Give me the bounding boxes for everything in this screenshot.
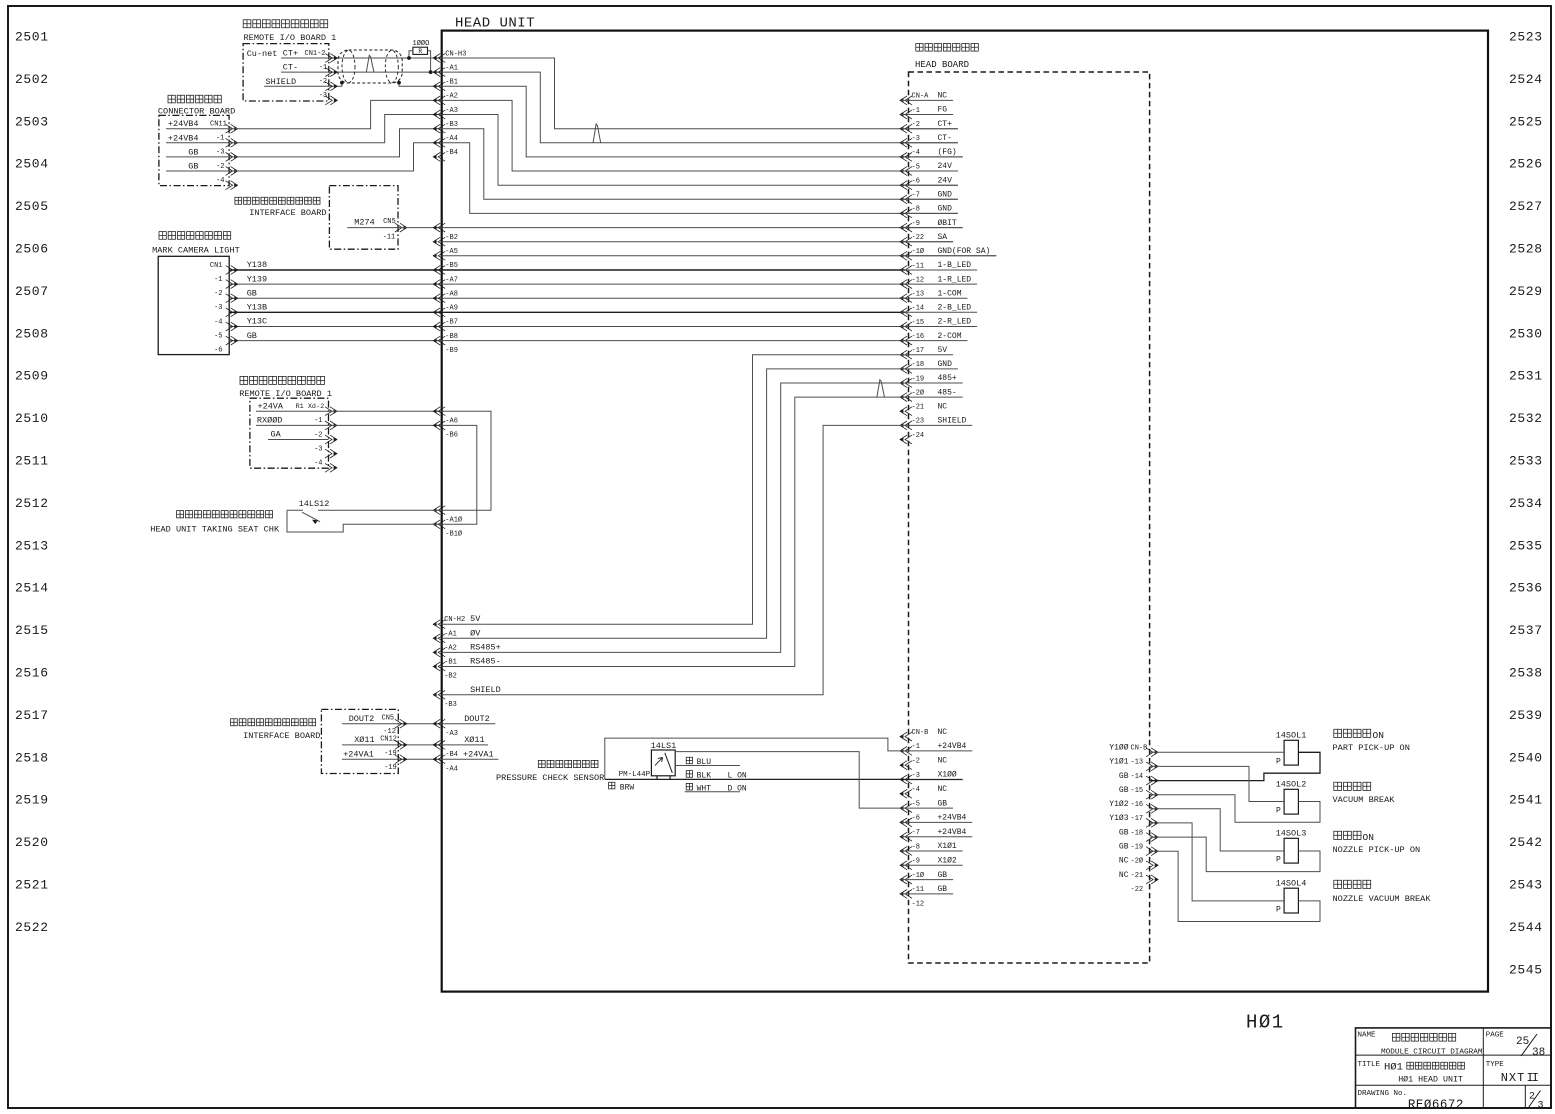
stub wire 2-COM xyxy=(901,340,968,342)
solenoid 14SOL4 box xyxy=(1284,888,1298,913)
svg-text:-B1: -B1 xyxy=(444,659,457,667)
connector pin CN11 CN11 xyxy=(226,124,238,133)
svg-text:M274: M274 xyxy=(354,218,374,228)
connector pin CN-H3 -B9 xyxy=(433,336,445,345)
svg-text:1-R_LED: 1-R_LED xyxy=(938,275,972,284)
solenoid 14SOL2 box xyxy=(1284,789,1298,814)
label part pick-up on (japanese) xyxy=(1334,729,1371,737)
connector pin +24VA1 head unit side xyxy=(433,755,445,764)
connector pin CN-A -19 xyxy=(900,379,912,388)
connector pin camera CN1 -2 xyxy=(226,294,238,303)
connector pin CN1 row 0 xyxy=(325,54,337,63)
wire A4 to GND (CN-H3 to CN-A) xyxy=(442,143,958,214)
connector pin CN-H3 CN-H3 xyxy=(433,54,445,63)
svg-text:2535: 2535 xyxy=(1509,538,1543,553)
connector pin CN-B CN-B xyxy=(900,732,912,741)
svg-text:2510: 2510 xyxy=(15,411,49,426)
svg-text:RS485-: RS485- xyxy=(470,657,501,667)
svg-text:-5: -5 xyxy=(912,800,920,808)
svg-text:CN11: CN11 xyxy=(210,121,227,129)
wire +24VA1 interface board to head unit xyxy=(342,758,498,760)
connector pin CN1 row 1 xyxy=(325,68,337,77)
svg-text:2541: 2541 xyxy=(1509,793,1543,808)
svg-text:2538: 2538 xyxy=(1509,666,1543,681)
svg-text:CT-: CT- xyxy=(938,134,952,143)
svg-text:WHT: WHT xyxy=(697,784,712,793)
wire +24VA to CN-H3 -A6 xyxy=(256,410,442,412)
connector pin CN-H2 0V xyxy=(433,634,445,643)
svg-text:-A4: -A4 xyxy=(445,135,458,143)
svg-text:DOUT2: DOUT2 xyxy=(349,714,375,724)
wire GB CN11-2 to CN-H3 -A4 xyxy=(166,143,442,171)
svg-text:P: P xyxy=(1276,905,1281,914)
connector pin CN-B -18 (right) xyxy=(1146,833,1158,842)
svg-text:-4: -4 xyxy=(912,786,920,794)
wire GA stub xyxy=(268,439,329,441)
connector pin CN-B -2 xyxy=(900,761,912,770)
svg-text:-7: -7 xyxy=(912,829,920,837)
svg-text:14SOL4: 14SOL4 xyxy=(1276,878,1307,888)
svg-text:2512: 2512 xyxy=(15,496,49,511)
svg-text:2519: 2519 xyxy=(15,793,49,808)
svg-text:-1: -1 xyxy=(912,107,920,115)
connector pin camera CN1 -1 xyxy=(226,280,238,289)
connector pin CN-H2 RS485- xyxy=(433,662,445,671)
stub wire GB xyxy=(901,879,953,881)
svg-text:2540: 2540 xyxy=(1509,750,1543,765)
svg-text:Y1ØØ: Y1ØØ xyxy=(1109,744,1128,753)
connector pin Xd row 1 xyxy=(325,421,337,430)
svg-text:SHIELD: SHIELD xyxy=(266,77,297,87)
svg-text:1-B_LED: 1-B_LED xyxy=(938,261,972,270)
stub wire NC xyxy=(901,99,953,101)
connector pin CN-A -18 xyxy=(900,365,912,374)
twisted pair symbol on 485- xyxy=(877,380,885,397)
connector pin CN-B -9 xyxy=(900,861,912,870)
connector pin CN11 -4 xyxy=(226,181,238,190)
connector pin X011 board side xyxy=(395,741,407,750)
wire loop A6 to A10 (inside head unit) xyxy=(442,411,491,510)
svg-text:+24VA1: +24VA1 xyxy=(343,749,374,759)
svg-text:TYPE: TYPE xyxy=(1486,1061,1505,1069)
svg-text:BLU: BLU xyxy=(697,758,712,767)
svg-text:XØ11: XØ11 xyxy=(464,735,484,745)
wire Y101 to 14SOL2 xyxy=(1150,766,1285,801)
connector pin CN-B -5 xyxy=(900,804,912,813)
title block xyxy=(1356,1028,1552,1109)
svg-text:INTERFACE BOARD: INTERFACE BOARD xyxy=(243,731,320,741)
wire Y103 to 14SOL4 xyxy=(1150,823,1285,901)
wire Y13C camera to CN-A xyxy=(229,326,905,328)
wire X011 interface board to head unit xyxy=(342,744,488,746)
svg-text:MARK CAMERA LIGHT: MARK CAMERA LIGHT xyxy=(152,246,240,256)
sensor 14LS1 box xyxy=(651,750,675,776)
svg-text:-A8: -A8 xyxy=(445,290,458,298)
svg-text:RS485+: RS485+ xyxy=(470,642,501,652)
svg-text:2516: 2516 xyxy=(15,666,49,681)
svg-text:ØV: ØV xyxy=(470,628,481,638)
svg-text:-2: -2 xyxy=(912,121,920,129)
svg-text:-3: -3 xyxy=(216,149,224,157)
connector pin CN-B -21 (right) xyxy=(1146,875,1158,884)
connector pin CN-A CN-A xyxy=(900,96,912,105)
wire SHIELD CN-H2 to CN-A xyxy=(442,425,901,694)
stub wire FG xyxy=(901,114,953,116)
svg-text:-A9: -A9 xyxy=(445,305,458,313)
svg-text:2503: 2503 xyxy=(15,114,49,129)
svg-text:GB: GB xyxy=(938,885,948,894)
solenoid 14SOL1 box xyxy=(1284,740,1298,765)
wire A3 to 24V (CN-H3 to CN-A) xyxy=(442,115,958,186)
connector pin DOUT2 head unit side xyxy=(433,719,445,728)
svg-text:-11: -11 xyxy=(383,234,396,242)
svg-text:Y1Ø3: Y1Ø3 xyxy=(1109,814,1128,823)
connector pin Xd row 4 xyxy=(325,463,337,472)
label connector board (japanese) xyxy=(168,95,221,103)
svg-text:PAGE: PAGE xyxy=(1486,1032,1505,1040)
connector pin CN-A -16 xyxy=(900,336,912,345)
svg-text:-16: -16 xyxy=(912,333,925,341)
wire GB camera to CN-A xyxy=(229,297,905,299)
wire RX00D to CN-H3 -B6 xyxy=(256,424,442,426)
svg-text:-1: -1 xyxy=(214,276,222,284)
resistor R 100ohm terminator xyxy=(413,47,428,54)
svg-text:-A4: -A4 xyxy=(445,766,458,774)
left margin row numbers 2501-2522 xyxy=(15,30,49,935)
connector pin CN-H2 RS485+ xyxy=(433,648,445,657)
svg-text:+24VA: +24VA xyxy=(258,401,284,411)
label head unit taking seat chk (japanese) xyxy=(177,511,273,518)
head board (dashed outline) xyxy=(909,72,1150,963)
svg-text:-6: -6 xyxy=(214,347,222,355)
svg-text:2-B_LED: 2-B_LED xyxy=(938,304,972,313)
svg-text:-B9: -B9 xyxy=(445,347,458,355)
connector pin CN-B CN-B (right) xyxy=(1146,748,1158,757)
svg-text:2-R_LED: 2-R_LED xyxy=(938,318,972,327)
svg-text:-16: -16 xyxy=(1131,801,1144,809)
label nozzle pick-up on (japanese) xyxy=(1334,831,1361,839)
svg-text:Y1Ø2: Y1Ø2 xyxy=(1109,800,1128,809)
stub wire GND xyxy=(901,368,958,370)
wire SHIELD from remote I/O board to cable screen xyxy=(264,83,342,87)
connector pin CN-A -21 xyxy=(900,407,912,416)
svg-text:+24VA1: +24VA1 xyxy=(463,749,494,759)
connector pin CN-H3 -B8 xyxy=(433,322,445,331)
svg-text:2518: 2518 xyxy=(15,750,49,765)
svg-text:25: 25 xyxy=(1516,1036,1529,1048)
svg-text:GB: GB xyxy=(188,162,198,172)
wire Y102 to 14SOL3 xyxy=(1150,809,1285,851)
svg-text:2523: 2523 xyxy=(1509,30,1543,45)
connector pin CN-B -1 xyxy=(900,747,912,756)
label H01 head unit (japanese) xyxy=(1407,1062,1465,1069)
label blue (japanese) xyxy=(686,757,692,764)
svg-text:2543: 2543 xyxy=(1509,878,1543,893)
svg-text:2505: 2505 xyxy=(15,199,49,214)
stub wire GB xyxy=(901,807,953,809)
connector pin DOUT2 board side xyxy=(395,719,407,728)
wire WHT stub (n.c.) xyxy=(685,791,740,793)
wire 14SOL3 return to GB -18 xyxy=(1150,837,1320,872)
svg-text:CN-H3: CN-H3 xyxy=(445,50,466,58)
connector pin CN-A -14 xyxy=(900,308,912,317)
svg-text:-4: -4 xyxy=(314,460,322,468)
connector pin CN5-11 xyxy=(395,223,407,232)
connector pin CN11 -2 xyxy=(226,167,238,176)
stub wire GB xyxy=(901,893,953,895)
svg-text:-8: -8 xyxy=(912,843,920,851)
connector pin CN-H3 -A6 xyxy=(433,407,445,416)
connector pin CN-A -23 xyxy=(900,421,912,430)
connector pin CN-H3 -A8 xyxy=(433,280,445,289)
svg-text:-19: -19 xyxy=(384,764,397,772)
connector pin CN-A -22 xyxy=(900,237,912,246)
svg-text:1ØØΩ: 1ØØΩ xyxy=(413,39,430,48)
connector pin CN-H3 -B3 xyxy=(433,124,445,133)
stub wire 485+ xyxy=(901,382,963,384)
svg-text:HØ1 HEAD UNIT: HØ1 HEAD UNIT xyxy=(1398,1075,1463,1085)
svg-text:-12: -12 xyxy=(912,276,925,284)
stub wire CT- xyxy=(901,142,958,144)
svg-text:-19: -19 xyxy=(912,375,925,383)
svg-text:NAME: NAME xyxy=(1358,1032,1377,1040)
svg-text:Y13B: Y13B xyxy=(247,303,267,313)
svg-text:-19: -19 xyxy=(1131,844,1144,852)
svg-text:-3: -3 xyxy=(314,445,322,453)
connector pin Xd row 3 xyxy=(325,449,337,458)
label mark camera light (japanese) xyxy=(159,232,231,240)
label black (japanese) xyxy=(686,771,692,778)
wire GB camera to CN-A xyxy=(229,340,905,342)
svg-text:-24: -24 xyxy=(912,432,925,440)
svg-text:CN-B: CN-B xyxy=(912,729,929,737)
stub wire 2-B_LED xyxy=(901,311,977,313)
svg-text:-4: -4 xyxy=(214,318,222,326)
svg-text:TITLE: TITLE xyxy=(1358,1061,1381,1069)
svg-text:14SOL1: 14SOL1 xyxy=(1276,731,1307,741)
wire BLU stub (n.c.) xyxy=(675,765,740,767)
svg-text:2531: 2531 xyxy=(1509,369,1543,384)
connector pin CN-H3 -B10 xyxy=(433,520,445,529)
svg-text:GB: GB xyxy=(1119,843,1129,852)
svg-text:NC: NC xyxy=(938,728,948,737)
wire GB CN11-3 to CN-H3 -B3 xyxy=(166,129,442,157)
svg-text:5V: 5V xyxy=(938,346,948,355)
connector pin CN-A -8 xyxy=(900,209,912,218)
connector pin CN1 row 3 xyxy=(325,96,337,105)
svg-text:2530: 2530 xyxy=(1509,326,1543,341)
svg-text:-15: -15 xyxy=(1131,787,1144,795)
svg-text:NC: NC xyxy=(938,92,948,101)
connector pin camera CN1 -3 xyxy=(226,308,238,317)
svg-text:RXØØD: RXØØD xyxy=(257,416,283,426)
svg-text:P: P xyxy=(1276,856,1281,865)
svg-text:-B1Ø: -B1Ø xyxy=(445,530,462,539)
stub wire (FG) xyxy=(901,156,963,158)
stub wire GND xyxy=(901,212,958,214)
svg-text:-B5: -B5 xyxy=(445,262,458,270)
svg-text:2527: 2527 xyxy=(1509,199,1543,214)
connector pin CN-H3 -A3 xyxy=(433,110,445,119)
svg-text:L ON: L ON xyxy=(728,772,747,781)
svg-text:-13: -13 xyxy=(912,291,925,299)
connector pin CN11 -3 xyxy=(226,153,238,162)
svg-text:-1: -1 xyxy=(912,743,920,751)
label interface board (japanese) xyxy=(235,197,320,204)
svg-text:-14: -14 xyxy=(1131,773,1144,781)
label vacuum break (japanese) xyxy=(1334,782,1371,790)
stub wire GND(FOR SA) xyxy=(901,255,996,257)
svg-text:-9: -9 xyxy=(912,858,920,866)
connector pin Xd row 0 xyxy=(325,407,337,416)
svg-text:-23: -23 xyxy=(912,418,925,426)
svg-text:ØBIT: ØBIT xyxy=(938,219,957,228)
svg-text:X1Ø2: X1Ø2 xyxy=(938,857,957,866)
connector pin CN-B -10 xyxy=(900,875,912,884)
shielded-pair cable symbol xyxy=(338,50,402,83)
connector pin CN-H3 -B7 xyxy=(433,308,445,317)
svg-text:+24VB4: +24VB4 xyxy=(938,814,967,823)
svg-text:CN-H2: CN-H2 xyxy=(444,616,465,624)
connector pin CN-B -3 xyxy=(900,775,912,784)
connector pin CN-A -12 xyxy=(900,280,912,289)
connector pin CN-A -1 xyxy=(900,110,912,119)
connector pin CN-A -2 xyxy=(900,124,912,133)
wire Y138 camera to CN-A xyxy=(229,269,905,271)
svg-text:2528: 2528 xyxy=(1509,242,1543,257)
svg-text:-2: -2 xyxy=(214,290,222,298)
wire CT- (CN-H3 to CN-A) xyxy=(442,72,958,143)
wire BLU to GB (CN-B -5) xyxy=(675,752,901,809)
svg-text:-1: -1 xyxy=(216,135,224,143)
svg-text:NC: NC xyxy=(938,402,948,411)
svg-text:-21: -21 xyxy=(1131,872,1144,880)
svg-text:-8: -8 xyxy=(912,206,920,214)
label module circuit diagram (japanese) xyxy=(1393,1033,1456,1041)
svg-text:485+: 485+ xyxy=(938,374,957,383)
svg-text:D ON: D ON xyxy=(728,784,747,793)
svg-text:-A1Ø: -A1Ø xyxy=(445,516,462,525)
wire 14SOL4 return to GB -19 xyxy=(1150,851,1320,921)
svg-text:14LS1: 14LS1 xyxy=(651,741,677,751)
label brown (japanese) xyxy=(609,782,615,789)
junction resistor/CT- xyxy=(429,70,433,74)
stub wire +24VB4 xyxy=(901,750,972,752)
sensor switch blade xyxy=(665,753,673,773)
connector pin camera CN1 -5 xyxy=(226,336,238,345)
svg-text:-1Ø: -1Ø xyxy=(912,247,925,256)
wire BRW +24V loop: sensor to CN-B -1 xyxy=(605,738,901,779)
HEAD UNIT enclosure box xyxy=(442,31,1488,992)
wire 0V CN-H2 to CN-A xyxy=(442,369,901,638)
svg-text:-21: -21 xyxy=(912,404,925,412)
svg-text:2520: 2520 xyxy=(15,835,49,850)
svg-text:2532: 2532 xyxy=(1509,411,1543,426)
svg-text:-18: -18 xyxy=(912,361,925,369)
connector pin CN-H3 -B6 xyxy=(433,421,445,430)
right margin row numbers 2523-2545 xyxy=(1509,30,1543,978)
stub wire 1-COM xyxy=(901,297,968,299)
svg-text:-B2: -B2 xyxy=(445,234,458,242)
svg-text:Y138: Y138 xyxy=(247,260,267,270)
connector pin CN-A -5 xyxy=(900,167,912,176)
svg-text:2501: 2501 xyxy=(15,30,49,45)
svg-text:HØ1: HØ1 xyxy=(1246,1012,1285,1034)
svg-text:2544: 2544 xyxy=(1509,920,1543,935)
svg-text:PART PICK-UP ON: PART PICK-UP ON xyxy=(1333,743,1410,753)
svg-text:2513: 2513 xyxy=(15,538,49,553)
label remote I/O board 1 (japanese) xyxy=(243,20,328,28)
svg-text:CN-B: CN-B xyxy=(1131,745,1148,753)
svg-text:2521: 2521 xyxy=(15,878,49,893)
wire 14SOL2 return to GB -15 xyxy=(1150,795,1320,823)
wire Y13B camera to CN-A xyxy=(229,311,905,313)
svg-text:GB: GB xyxy=(188,147,198,157)
wire +24VB4 CN11 to CN-H3 -A2 xyxy=(166,100,442,128)
wire resistor right lead to CT- xyxy=(428,51,431,72)
wire 14SOL1 return to GB -14 xyxy=(1150,752,1320,780)
stub wire X101 xyxy=(901,850,963,852)
svg-text:NC: NC xyxy=(938,785,948,794)
stub sensor black lead xyxy=(669,776,671,780)
connector pin CN-H3 -A9 xyxy=(433,294,445,303)
svg-text:BLK: BLK xyxy=(697,772,712,781)
svg-text:2537: 2537 xyxy=(1509,623,1543,638)
svg-text:2502: 2502 xyxy=(15,72,49,87)
svg-text:Y13C: Y13C xyxy=(247,317,267,327)
svg-text:2536: 2536 xyxy=(1509,581,1543,596)
svg-text:-11: -11 xyxy=(912,886,925,894)
svg-text:-3: -3 xyxy=(912,772,920,780)
svg-text:2509: 2509 xyxy=(15,369,49,384)
svg-text:-3: -3 xyxy=(214,304,222,312)
wire Y139 camera to CN-A xyxy=(229,283,905,285)
connector pin CN-H3 -A4 xyxy=(433,138,445,147)
wire +24VB4 CN11-1 to CN-H3 -A3 xyxy=(166,115,442,143)
connector pin CN-A -9 xyxy=(900,223,912,232)
twisted pair symbol on CT-/CT+ xyxy=(366,55,374,72)
junction cable screen right xyxy=(397,81,401,85)
connector pin CN-H2 SHIELD xyxy=(433,690,445,699)
connector pin CN-H3 -A5 xyxy=(433,237,445,246)
svg-text:-A2: -A2 xyxy=(445,93,458,101)
svg-text:-13: -13 xyxy=(1131,759,1144,767)
connector pin CN-B -15 (right) xyxy=(1146,790,1158,799)
svg-text:38: 38 xyxy=(1532,1047,1545,1059)
svg-text:X1Ø1: X1Ø1 xyxy=(938,842,957,851)
connector pin CN-B -6 xyxy=(900,818,912,827)
wire M274 to CN-A 0BIT xyxy=(347,227,962,229)
svg-text:-5: -5 xyxy=(912,163,920,171)
stub wire SA xyxy=(901,241,953,243)
connector pin camera CN1 CN1 xyxy=(226,266,238,275)
svg-text:-A2: -A2 xyxy=(444,644,457,652)
wire Y100 to 14SOL1 xyxy=(1150,751,1285,753)
svg-text:GND: GND xyxy=(938,191,953,200)
svg-text:REØ6672: REØ6672 xyxy=(1408,1098,1464,1112)
stub wire +24VB4 xyxy=(901,821,972,823)
svg-text:GND(FOR SA): GND(FOR SA) xyxy=(938,247,991,256)
wire loop B6 to B10 (inside head unit) xyxy=(442,425,477,524)
svg-text:NC: NC xyxy=(1119,871,1129,880)
svg-text:-2: -2 xyxy=(912,758,920,766)
connector pin CN-H3 -A7 xyxy=(433,266,445,275)
connector pin CN-B -16 (right) xyxy=(1146,804,1158,813)
connector pin CN-B -8 xyxy=(900,847,912,856)
svg-text:-17: -17 xyxy=(1131,815,1144,823)
connector pin CN-H3 -A2 xyxy=(433,96,445,105)
connector pin CN-B -11 xyxy=(900,890,912,899)
